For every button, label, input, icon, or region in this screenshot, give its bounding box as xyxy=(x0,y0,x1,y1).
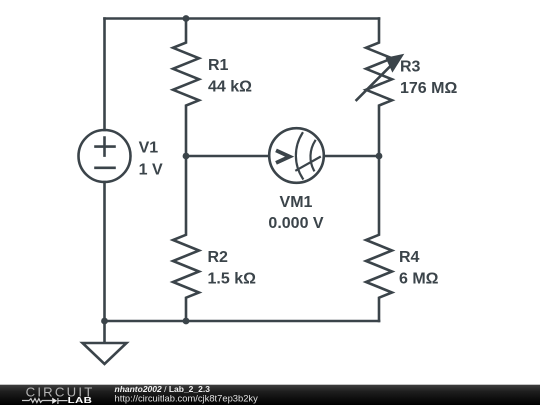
svg-text:1.5 kΩ: 1.5 kΩ xyxy=(208,271,257,288)
svg-text:R3: R3 xyxy=(400,58,421,75)
svg-text:176 MΩ: 176 MΩ xyxy=(400,80,457,97)
svg-text:R4: R4 xyxy=(399,249,420,266)
svg-text:V1: V1 xyxy=(139,140,159,157)
svg-text:LAB: LAB xyxy=(68,396,93,405)
svg-text:0.000 V: 0.000 V xyxy=(268,215,323,232)
svg-text:R2: R2 xyxy=(208,249,229,266)
svg-text:http://circuitlab.com/cjk8t7ep: http://circuitlab.com/cjk8t7ep3b2ky xyxy=(115,392,259,403)
svg-text:1 V: 1 V xyxy=(139,161,163,178)
svg-text:VM1: VM1 xyxy=(280,194,313,211)
svg-text:6 MΩ: 6 MΩ xyxy=(399,271,439,288)
svg-text:44 kΩ: 44 kΩ xyxy=(208,78,252,95)
svg-text:R1: R1 xyxy=(208,57,229,74)
